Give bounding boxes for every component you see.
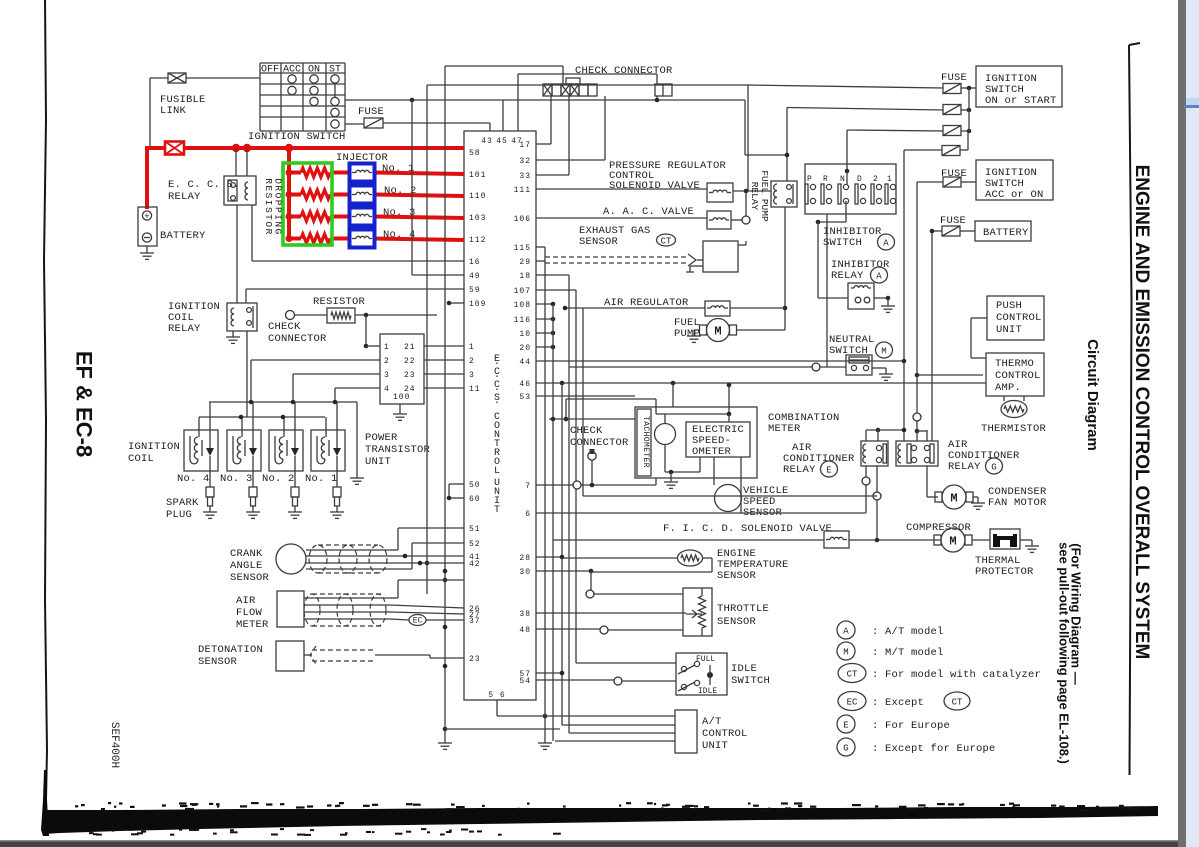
svg-text:OFF: OFF (261, 65, 279, 76)
svg-text:T: T (494, 505, 500, 516)
svg-text:CONNECTOR: CONNECTOR (570, 437, 629, 449)
svg-text:18: 18 (519, 272, 531, 281)
svg-text:2: 2 (384, 357, 390, 366)
svg-text:SPARK: SPARK (166, 497, 199, 509)
svg-text:106: 106 (514, 215, 531, 224)
svg-text:CT: CT (952, 697, 963, 707)
svg-text:: Except: : Except (872, 697, 924, 709)
svg-text:+: + (144, 212, 149, 222)
svg-text:: A/T model: : A/T model (872, 626, 944, 638)
svg-text:CHECK CONNECTOR: CHECK CONNECTOR (575, 65, 673, 77)
svg-text:101: 101 (469, 171, 486, 180)
svg-text:1: 1 (384, 343, 390, 352)
svg-text:.: . (494, 396, 500, 407)
svg-text:FAN MOTOR: FAN MOTOR (988, 497, 1047, 509)
svg-text:SWITCH: SWITCH (823, 237, 862, 249)
svg-text:CONTROL: CONTROL (702, 728, 748, 740)
svg-text:POWER: POWER (365, 432, 398, 444)
svg-text:58: 58 (469, 149, 481, 158)
svg-text:23: 23 (404, 371, 416, 380)
svg-text:M: M (949, 535, 956, 549)
svg-text:CT: CT (847, 669, 858, 679)
svg-text:COIL: COIL (128, 453, 154, 465)
svg-text:21: 21 (404, 343, 416, 352)
svg-text:TACHOMETER: TACHOMETER (641, 416, 650, 468)
svg-text:AIR: AIR (236, 595, 256, 607)
svg-text:49: 49 (469, 272, 481, 281)
svg-text:38: 38 (519, 610, 531, 619)
svg-text:P: P (807, 175, 812, 184)
svg-text:FUSE: FUSE (941, 168, 967, 180)
svg-text:SENSOR: SENSOR (579, 236, 619, 248)
svg-text:111: 111 (514, 186, 531, 195)
svg-text:28: 28 (519, 554, 531, 563)
svg-text:G: G (843, 743, 848, 753)
svg-text:METER: METER (768, 423, 801, 435)
svg-text:A. A. C. VALVE: A. A. C. VALVE (603, 206, 694, 218)
svg-text:3: 3 (384, 371, 390, 380)
svg-text:No. 4: No. 4 (383, 229, 416, 241)
svg-text:2: 2 (873, 175, 878, 184)
svg-text:IGNITION: IGNITION (128, 441, 180, 453)
svg-text:A: A (876, 271, 882, 281)
svg-text:A: A (843, 626, 849, 636)
svg-text:SENSOR: SENSOR (717, 616, 757, 628)
svg-text:PLUG: PLUG (166, 509, 192, 521)
svg-text:ANGLE: ANGLE (230, 560, 263, 572)
svg-text:AMP.: AMP. (995, 382, 1021, 394)
svg-text:IGNITION SWITCH: IGNITION SWITCH (248, 131, 346, 143)
svg-text:TRANSISTOR: TRANSISTOR (365, 444, 431, 456)
svg-text:: For model with catalyzer: : For model with catalyzer (872, 669, 1041, 681)
svg-text:10: 10 (519, 330, 531, 339)
svg-text:Circuit Diagram: Circuit Diagram (1084, 339, 1101, 451)
svg-text:CRANK: CRANK (230, 548, 263, 560)
svg-text:DETONATION: DETONATION (198, 644, 263, 656)
svg-text:RELAY: RELAY (749, 182, 760, 211)
svg-text:CT: CT (661, 236, 672, 246)
svg-text:17: 17 (519, 141, 531, 150)
svg-text:: M/T model: : M/T model (872, 647, 944, 659)
svg-text:PROTECTOR: PROTECTOR (975, 566, 1034, 578)
svg-text:103: 103 (469, 214, 486, 223)
svg-text:RELAY: RELAY (168, 323, 201, 335)
svg-text:46: 46 (519, 380, 531, 389)
svg-text:33: 33 (519, 172, 531, 181)
svg-text:1: 1 (887, 175, 892, 184)
svg-text:2: 2 (469, 357, 475, 366)
svg-text:44: 44 (519, 358, 531, 367)
svg-text:IDLE: IDLE (731, 663, 757, 675)
svg-text:32: 32 (519, 157, 531, 166)
svg-text:60: 60 (469, 495, 481, 504)
svg-text:FUSE: FUSE (941, 72, 967, 84)
svg-text:EC: EC (847, 697, 858, 707)
svg-text:L: L (494, 466, 500, 477)
svg-text:SENSOR: SENSOR (198, 656, 238, 668)
svg-text:RELAY: RELAY (168, 191, 201, 203)
svg-text:SEF400H: SEF400H (108, 722, 120, 768)
svg-text:UNIT: UNIT (365, 456, 391, 468)
svg-text:N: N (840, 175, 845, 184)
svg-text:109: 109 (469, 300, 486, 309)
svg-text:45: 45 (496, 137, 508, 146)
svg-text:SENSOR: SENSOR (717, 570, 757, 582)
svg-text:ST: ST (329, 65, 341, 76)
svg-text:No. 3: No. 3 (220, 473, 253, 485)
svg-text:UNIT: UNIT (702, 740, 728, 752)
svg-text:M: M (714, 325, 721, 339)
svg-text:52: 52 (469, 540, 481, 549)
svg-text:50: 50 (469, 481, 481, 490)
svg-text:M: M (843, 647, 848, 657)
svg-text:EC: EC (413, 617, 423, 626)
svg-text:UNIT: UNIT (996, 324, 1022, 336)
svg-text:SENSOR: SENSOR (230, 572, 270, 584)
svg-text:THROTTLE: THROTTLE (717, 603, 769, 615)
svg-text:No. 1: No. 1 (382, 163, 415, 175)
svg-text:116: 116 (514, 316, 531, 325)
svg-text:No. 4: No. 4 (177, 473, 210, 485)
svg-text:FUSE: FUSE (358, 106, 384, 118)
svg-text:30: 30 (519, 568, 531, 577)
svg-text:No. 2: No. 2 (262, 473, 295, 485)
svg-text:E: E (843, 720, 848, 730)
svg-text:100: 100 (393, 393, 410, 402)
svg-text:SOLENOID VALVE: SOLENOID VALVE (609, 180, 700, 192)
svg-text:7: 7 (525, 482, 531, 491)
svg-text:M: M (950, 492, 957, 506)
svg-text:108: 108 (514, 301, 531, 310)
svg-text:22: 22 (404, 357, 416, 366)
svg-text:BATTERY: BATTERY (160, 230, 206, 242)
svg-text:No. 3: No. 3 (383, 207, 416, 219)
svg-text:AIR REGULATOR: AIR REGULATOR (604, 297, 689, 309)
svg-text:48: 48 (519, 626, 531, 635)
svg-text:E. C. C. S.: E. C. C. S. (168, 179, 240, 191)
svg-text:LINK: LINK (160, 105, 187, 117)
svg-text:RELAY: RELAY (948, 461, 981, 473)
svg-text:53: 53 (519, 393, 531, 402)
svg-text:RELAY: RELAY (783, 464, 816, 476)
svg-text:RELAY: RELAY (831, 270, 864, 282)
svg-text:ON: ON (308, 65, 320, 76)
svg-text:BATTERY: BATTERY (983, 227, 1029, 239)
svg-text:59: 59 (469, 286, 481, 295)
svg-text:112: 112 (469, 236, 486, 245)
svg-text:G: G (991, 462, 996, 472)
svg-text:29: 29 (519, 258, 531, 267)
svg-text:4: 4 (384, 385, 390, 394)
svg-text:No. 1: No. 1 (305, 473, 338, 485)
svg-text:PUSH: PUSH (996, 300, 1022, 312)
svg-text:RESISTOR: RESISTOR (263, 178, 274, 236)
svg-text:16: 16 (469, 258, 481, 267)
svg-text:6: 6 (525, 510, 531, 519)
svg-text:5 6: 5 6 (488, 691, 505, 700)
svg-text:M: M (881, 346, 886, 356)
svg-text:EF & EC-8: EF & EC-8 (72, 351, 97, 457)
svg-text:CHECK: CHECK (268, 321, 301, 333)
svg-text:54: 54 (519, 677, 531, 686)
svg-text:11: 11 (469, 385, 481, 394)
svg-text:CONNECTOR: CONNECTOR (268, 333, 327, 345)
svg-text:A/T: A/T (702, 716, 722, 728)
svg-text:IDLE: IDLE (698, 687, 717, 696)
svg-text:A: A (883, 238, 889, 248)
svg-text:ON or START: ON or START (985, 95, 1057, 107)
svg-text:CHECK: CHECK (570, 425, 603, 437)
svg-text:THERMISTOR: THERMISTOR (981, 423, 1047, 435)
svg-text:3: 3 (469, 371, 475, 380)
svg-text:ENGINE AND EMISSION CONTROL OV: ENGINE AND EMISSION CONTROL OVERALL SYST… (1131, 165, 1152, 660)
svg-text:D: D (857, 175, 862, 184)
svg-text:OMETER: OMETER (692, 446, 732, 458)
svg-text:42: 42 (469, 560, 481, 569)
svg-text:1: 1 (469, 343, 475, 352)
svg-text:51: 51 (469, 525, 481, 534)
svg-text:RESISTOR: RESISTOR (313, 296, 366, 308)
svg-text:: Except for Europe: : Except for Europe (872, 743, 996, 755)
svg-text:METER: METER (236, 619, 269, 631)
svg-text:FLOW: FLOW (236, 607, 263, 619)
svg-text:20: 20 (519, 344, 531, 353)
svg-text:ACC: ACC (283, 65, 301, 76)
svg-text:23: 23 (469, 655, 481, 664)
svg-text:INJECTOR: INJECTOR (336, 152, 389, 164)
svg-text:110: 110 (469, 192, 486, 201)
svg-text:see pull-out following page EL: see pull-out following page EL-108.) (1057, 542, 1072, 764)
svg-text:E: E (826, 465, 831, 475)
svg-text:R: R (823, 175, 828, 184)
svg-text:107: 107 (514, 287, 531, 296)
svg-text:F. I. C. D. SOLENOID VALVE: F. I. C. D. SOLENOID VALVE (663, 523, 832, 535)
svg-text:THERMO: THERMO (995, 358, 1034, 370)
svg-text:CONTROL: CONTROL (996, 312, 1042, 324)
svg-text:115: 115 (514, 244, 531, 253)
svg-text:FUSE: FUSE (940, 215, 966, 227)
svg-text:37: 37 (469, 617, 481, 626)
svg-text:: For Europe: : For Europe (872, 720, 950, 732)
svg-text:ACC or ON: ACC or ON (985, 189, 1044, 201)
svg-text:CONTROL: CONTROL (995, 370, 1041, 382)
svg-text:SWITCH: SWITCH (731, 675, 770, 687)
svg-text:43: 43 (481, 137, 493, 146)
